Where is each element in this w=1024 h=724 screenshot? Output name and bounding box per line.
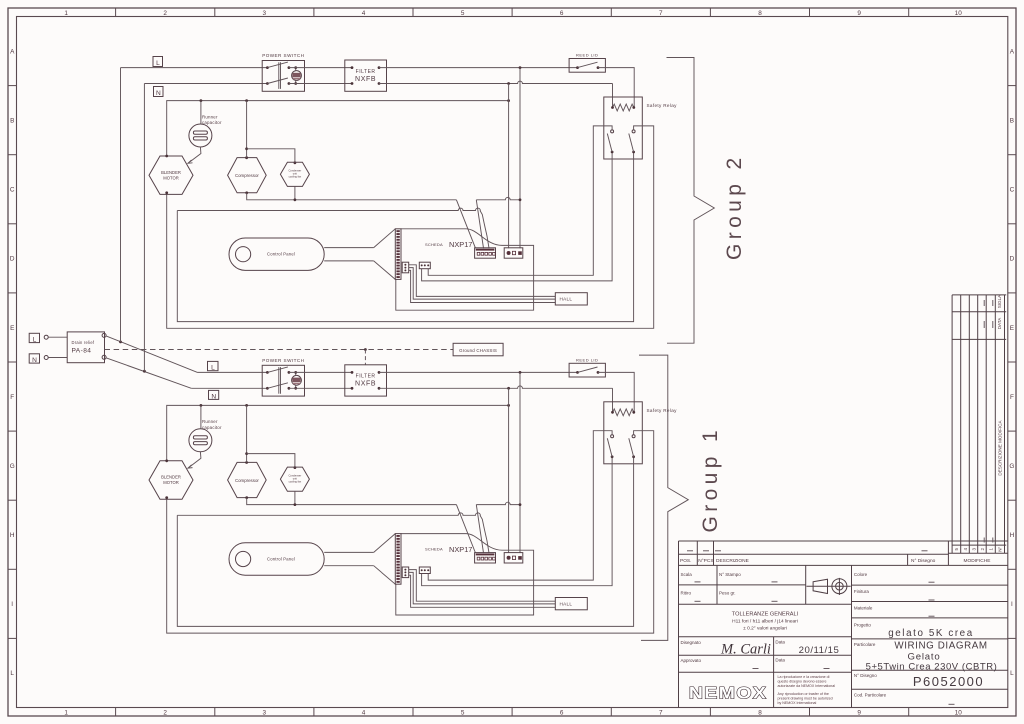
wire relay contact2-top loop to blender motor (group 1) [167, 431, 654, 633]
wire diagonal B to scheda (group 2) [476, 200, 483, 248]
svg-text:I: I [11, 601, 13, 608]
svg-text:10: 10 [955, 709, 963, 716]
svg-text:MOTOR: MOTOR [163, 175, 179, 180]
svg-text:L: L [211, 365, 215, 372]
connector CN3 3-pin (group 1) [504, 553, 523, 563]
revision strip column numbers [954, 294, 1003, 552]
blender motor M1 (group 1) [149, 461, 193, 499]
filter NXFB (group 2) [345, 60, 387, 91]
svg-text:H: H [10, 532, 15, 539]
wire terminal N to strain relief [48, 357, 67, 359]
svg-text:MODIFICHE: MODIFICHE [964, 558, 991, 564]
title block header row texts [680, 558, 990, 564]
connector CN3 3-pin (group 2) [504, 248, 523, 258]
svg-text:NXFB: NXFB [355, 381, 376, 388]
wire filter to reed-lid L (group 1) [379, 371, 578, 373]
svg-text:capacitor: capacitor [202, 425, 222, 430]
svg-text:E: E [10, 325, 14, 332]
svg-text:A: A [10, 48, 15, 55]
node-label box N (group 2) [154, 87, 164, 97]
svg-text:H11 fori / h11 alberi /: H11 fori / h11 alberi / j14 lineari [732, 619, 798, 625]
wire relay contact1-bottom loop to connector K (group 1) [422, 458, 612, 586]
svg-text:C: C [1010, 187, 1015, 194]
wire compressor return right segment (group 2) [476, 197, 520, 199]
wire filter to relay-coil N (group 1) [379, 386, 613, 388]
svg-text:D: D [10, 256, 15, 263]
wire compressor return (group 2) [247, 193, 457, 200]
svg-text:autorizzate da NEMOX Internati: autorizzate da NEMOX International [778, 684, 836, 688]
svg-text:L: L [1010, 670, 1014, 677]
wire L to power switch (group 1) [198, 371, 268, 373]
power switch blades (group 2) [267, 62, 288, 68]
title block field labels [681, 572, 887, 697]
wire capacitor to blender (group 2) [188, 147, 201, 163]
svg-text:E: E [1010, 325, 1014, 332]
pin strip connector (group 2) [395, 229, 401, 280]
svg-text:Group 1: Group 1 [699, 426, 722, 533]
connector K 3-pin (group 2) [419, 262, 430, 269]
svg-text:NXP17: NXP17 [449, 240, 472, 249]
relay contact 2 (group 1) [632, 435, 635, 438]
svg-text:P6052000: P6052000 [913, 674, 984, 689]
svg-text:SCHEDA: SCHEDA [425, 547, 443, 552]
scheda NXP17 board outline (group 2) [396, 229, 534, 310]
wire N bus (group 2) [167, 101, 509, 156]
node-label box L (group 2) [153, 57, 163, 67]
svg-text:10: 10 [955, 10, 963, 17]
svg-text:Any riproduction or trasfer of: Any riproduction or trasfer of the [778, 692, 829, 696]
svg-text:5+5Twin Crea 230V (CBTR): 5+5Twin Crea 230V (CBTR) [866, 661, 998, 672]
svg-text:D: D [1010, 256, 1015, 263]
copyright note [778, 675, 836, 705]
junction N tap (group 2) [507, 82, 510, 85]
node-label box L (group 1) [208, 361, 219, 370]
wire L to power switch (group 2) [121, 67, 268, 69]
wire reed to relay coil (group 1) [598, 372, 634, 411]
wire diagonal A to scheda (group 1) [456, 505, 475, 553]
svg-text:8: 8 [758, 10, 762, 17]
svg-text:Cod. Particolare: Cod. Particolare [854, 692, 887, 697]
HALL sensor (group 2) [555, 293, 587, 305]
title block placeholder dashes [687, 551, 955, 705]
control panel cable neck (group 1) [324, 551, 374, 553]
relay contact 1 (group 2) [611, 130, 614, 133]
tolleranze generali note [732, 611, 799, 631]
svg-text:7: 7 [659, 709, 663, 716]
wire bus to capacitor (group 2) [200, 101, 202, 124]
svg-text:1: 1 [989, 547, 994, 550]
wire bus to compressor (group 1) [246, 405, 248, 462]
connector J 3-pin (group 2) [402, 262, 409, 273]
svg-text:SIGLA: SIGLA [997, 294, 1002, 308]
svg-text:5: 5 [954, 547, 959, 550]
wire compressor return (group 1) [247, 498, 457, 505]
cable funnel (group 1) [374, 534, 396, 553]
svg-text:G: G [1009, 463, 1014, 470]
svg-text:6: 6 [560, 10, 564, 17]
wire branch to fan (group 2) [247, 149, 295, 163]
svg-text:Ritiro: Ritiro [681, 591, 692, 596]
terminal label N [29, 354, 39, 363]
svg-text:H: H [1010, 532, 1015, 539]
junction ground tap [364, 348, 367, 351]
svg-text:N°PCS: N°PCS [698, 558, 713, 564]
relay coil (group 1) [613, 409, 634, 416]
junction L tap (group 1) [519, 371, 522, 374]
filter NXFB (group 1) [345, 365, 387, 396]
wire N drop to connector (group 2) [508, 84, 510, 249]
terminal label L [29, 333, 39, 342]
svg-text:Ground CHASSIS: Ground CHASSIS [459, 348, 497, 353]
svg-text:MOTOR: MOTOR [163, 480, 179, 485]
wire diagonal A to scheda (group 2) [456, 200, 475, 248]
control panel cable neck (group 2) [324, 247, 374, 249]
wire filter to relay-coil N (group 2) [379, 81, 613, 83]
power switch mechanical link (group 2) [278, 62, 280, 89]
svg-text:8: 8 [758, 709, 762, 716]
svg-text:3: 3 [263, 709, 267, 716]
connector CN5 5-pin (group 2) [475, 248, 496, 258]
condenser cooling fan M3 (group 2) [280, 162, 309, 186]
svg-text:L: L [156, 60, 160, 67]
svg-text:N° Stampo: N° Stampo [719, 572, 741, 577]
first angle projection symbol [813, 579, 827, 593]
svg-text:I: I [1011, 601, 1013, 608]
power switch mechanical link (group 1) [278, 367, 280, 394]
svg-text:HALL: HALL [560, 602, 573, 607]
wire filter to reed-lid L (group 2) [379, 67, 578, 69]
svg-text:6: 6 [560, 709, 564, 716]
wire compressor return right segment (group 1) [476, 502, 520, 504]
svg-text:C: C [10, 187, 15, 194]
power switch S1 (group 2) [262, 61, 304, 92]
svg-text:Runner: Runner [202, 419, 218, 424]
svg-text:cooling fan: cooling fan [289, 175, 302, 179]
wire relay contact1-top loop to connector K (group 2) [428, 126, 612, 275]
node-label box N (group 1) [209, 390, 219, 399]
title block values [799, 628, 998, 689]
svg-text:Drain relief: Drain relief [72, 340, 95, 345]
svg-text:REED LID: REED LID [576, 357, 598, 362]
connector J 3-pin (group 1) [402, 567, 409, 578]
group bracket (group 2) [667, 58, 715, 344]
svg-text:BLENDER: BLENDER [161, 475, 181, 480]
wire relay contact2-top loop to blender motor (group 2) [167, 126, 654, 328]
power switch lamp (group 2) [292, 71, 302, 81]
scheda NXP17 board outline (group 1) [396, 534, 534, 615]
svg-text:by NEMOX International: by NEMOX International [778, 701, 817, 705]
svg-text:present drawing must be autori: present drawing must be autorized [778, 696, 833, 700]
junction L tap (group 2) [519, 66, 522, 69]
svg-text:3: 3 [971, 547, 976, 550]
svg-text:4: 4 [362, 709, 366, 716]
svg-text:2: 2 [163, 709, 167, 716]
group bracket (group 1) [639, 355, 688, 640]
wire capacitor to blender (group 1) [188, 452, 201, 468]
safety relay K1 (group 2) [604, 97, 643, 159]
wire fan return (group 2) [294, 186, 296, 199]
svg-text:A: A [1010, 48, 1015, 55]
title block outline [679, 541, 1008, 708]
svg-text:TOLLERANZE GENERALI: TOLLERANZE GENERALI [732, 611, 799, 617]
wire terminal L to strain relief [48, 336, 67, 338]
svg-text:9: 9 [857, 10, 861, 17]
svg-text:Compressor: Compressor [235, 173, 259, 178]
svg-text:POWER SWITCH: POWER SWITCH [262, 358, 304, 363]
svg-text:Finitura: Finitura [854, 589, 870, 594]
control panel (group 2) [229, 238, 324, 270]
svg-text:F: F [10, 394, 14, 401]
safety relay K1 (group 1) [604, 402, 643, 464]
svg-text:1: 1 [64, 10, 68, 17]
svg-text:Colore: Colore [854, 572, 868, 577]
revision strip table [948, 295, 1007, 553]
compressor M2 (group 1) [228, 462, 267, 497]
junction N tap (group 1) [507, 387, 510, 390]
wire diagonal B to scheda (group 1) [476, 505, 483, 553]
wire J pin1 to HALL (group 2) [409, 265, 556, 297]
wire switch to filter L (group 2) [289, 67, 352, 69]
svg-text:Scala: Scala [681, 572, 693, 577]
svg-text:DESCRIZIONE MODIFICA: DESCRIZIONE MODIFICA [998, 420, 1003, 476]
svg-text:gelato 5K crea: gelato 5K crea [888, 628, 974, 639]
wire relay contact2-bottom loop to scheda connector (group 2) [177, 153, 633, 322]
svg-text:Safety Relay: Safety Relay [647, 103, 678, 108]
svg-text:4: 4 [362, 10, 366, 17]
svg-text:Compressor: Compressor [235, 478, 259, 483]
power switch contacts (group 2) [266, 66, 269, 69]
wire N to power switch (group 2) [144, 83, 267, 85]
svg-text:BLENDER: BLENDER [161, 170, 181, 175]
svg-text:Peso gr.: Peso gr. [719, 591, 736, 596]
svg-text:2: 2 [980, 547, 985, 550]
svg-text:SCHEDA: SCHEDA [425, 242, 443, 247]
wire mains L diagonal to group 1 [106, 336, 198, 373]
blender motor M1 (group 2) [149, 156, 193, 194]
svg-text:questo disegno devono essere: questo disegno devono essere [778, 680, 827, 684]
svg-text:Group 2: Group 2 [723, 153, 746, 260]
wire J pin2 to HALL (group 1) [409, 572, 556, 604]
wire J pin2 to HALL (group 2) [409, 268, 556, 300]
svg-text:1: 1 [64, 709, 68, 716]
svg-text:FILTER: FILTER [356, 69, 376, 75]
svg-text:L: L [10, 670, 14, 677]
wire L drop to connector (group 1) [519, 372, 521, 553]
svg-text:3: 3 [263, 10, 267, 17]
terminal N [44, 356, 48, 360]
cable funnel (group 2) [374, 229, 396, 248]
wire J pin1 to HALL (group 1) [409, 570, 556, 602]
wire branch to fan (group 1) [247, 454, 295, 468]
svg-text:20/11/15: 20/11/15 [799, 645, 840, 656]
wire fan return (group 1) [294, 491, 296, 504]
terminal L [44, 335, 48, 339]
svg-text:Safety Relay: Safety Relay [647, 408, 678, 413]
wire bus to capacitor (group 1) [200, 405, 202, 428]
control panel (group 1) [229, 543, 324, 575]
wire switch to filter N (group 2) [289, 83, 352, 85]
svg-text:9: 9 [857, 709, 861, 716]
wire N bus (group 1) [167, 405, 509, 460]
svg-text:N° Disegno: N° Disegno [854, 673, 877, 678]
svg-text:N°: N° [998, 546, 1003, 551]
svg-text:La riproduzione e la creazione: La riproduzione e la creazione di [778, 675, 830, 679]
svg-text:DESCRIZIONE: DESCRIZIONE [716, 558, 749, 564]
strain relief PA-84 [67, 332, 104, 363]
svg-text:4: 4 [963, 547, 968, 550]
svg-text:POS.: POS. [680, 558, 691, 564]
power switch S1 (group 1) [262, 365, 304, 396]
relay contact 2 (group 2) [632, 130, 635, 133]
power switch lamp (group 1) [292, 375, 302, 385]
junction mains L tap for group 2 [119, 341, 122, 344]
wire mains L riser to group 2 [120, 68, 122, 342]
strain relief output terminals [102, 333, 106, 337]
HALL sensor (group 1) [555, 598, 587, 610]
svg-text:Disegnato: Disegnato [681, 640, 702, 645]
svg-text:Materiale: Materiale [854, 606, 873, 611]
relay contact 1 (group 1) [611, 435, 614, 438]
svg-text:N: N [156, 90, 161, 97]
wire L drop to connector (group 2) [519, 68, 521, 249]
runner capacitor C1 (group 1) [189, 429, 212, 452]
svg-text:5: 5 [461, 10, 465, 17]
pin strip connector (group 1) [395, 534, 401, 585]
svg-text:Approvato: Approvato [681, 658, 702, 663]
wire relay contact1-bottom loop to connector K (group 2) [422, 153, 612, 281]
svg-text:Control Panel: Control Panel [267, 252, 295, 257]
svg-text:Runner: Runner [202, 114, 218, 119]
revision strip placeholder ticks [984, 300, 993, 543]
svg-text:N: N [211, 393, 216, 400]
svg-text:N° Disegno: N° Disegno [911, 558, 936, 564]
svg-text:POWER SWITCH: POWER SWITCH [262, 53, 304, 58]
wire N to power switch (group 1) [191, 387, 267, 389]
svg-text:HALL: HALL [560, 297, 573, 302]
reed lid switch (group 1) [569, 363, 605, 377]
svg-text:M. Carli: M. Carli [720, 642, 771, 658]
svg-text:capacitor: capacitor [202, 120, 222, 125]
wire switch to filter N (group 1) [289, 387, 352, 389]
wire reed to relay coil (group 2) [598, 68, 634, 107]
svg-text:N: N [32, 357, 37, 364]
svg-text:NEMOX: NEMOX [689, 684, 767, 702]
svg-text:B: B [1010, 117, 1014, 124]
power switch contacts (group 1) [266, 371, 269, 374]
junction mains N tap for group 2 [143, 370, 146, 373]
wire J pin3 to HALL (group 1) [409, 575, 556, 607]
connector CN5 5-pin (group 1) [475, 553, 496, 563]
runner capacitor C1 (group 2) [189, 124, 212, 147]
wire bus to compressor (group 2) [246, 101, 248, 158]
svg-text:NXP17: NXP17 [449, 545, 472, 554]
reed lid switch (group 2) [569, 59, 605, 73]
svg-text:2: 2 [163, 10, 167, 17]
svg-text:B: B [10, 117, 14, 124]
ground stub to filter group 1 [364, 350, 366, 365]
power switch blades (group 1) [267, 367, 288, 373]
svg-text:Data: Data [775, 640, 785, 645]
ground chassis dashed wire [105, 349, 454, 351]
condenser cooling fan M3 (group 1) [280, 467, 309, 491]
svg-text:WIRING DIAGRAM: WIRING DIAGRAM [894, 641, 987, 652]
svg-text:REED LID: REED LID [576, 53, 598, 58]
wire J pin3 to HALL (group 2) [409, 270, 556, 302]
wire mains N riser to group 2 [143, 84, 145, 372]
svg-text:DATA: DATA [997, 317, 1002, 330]
svg-text:L: L [33, 336, 37, 343]
svg-text:F: F [1010, 394, 1014, 401]
svg-text:Control Panel: Control Panel [267, 557, 295, 562]
wire relay contact1-top loop to connector K (group 1) [428, 431, 612, 580]
wire relay contact2-bottom loop to scheda connector (group 1) [177, 458, 633, 627]
wire switch to filter L (group 1) [289, 371, 352, 373]
relay coil (group 2) [613, 104, 634, 111]
svg-text:Progetto: Progetto [854, 623, 872, 628]
compressor M2 (group 2) [228, 158, 267, 193]
wire mains N diagonal to group 1 [106, 358, 191, 389]
connector K 3-pin (group 1) [419, 567, 430, 574]
wire N drop to connector (group 1) [508, 388, 510, 553]
svg-text:PA-84: PA-84 [72, 347, 92, 354]
svg-text:NXFB: NXFB [355, 76, 376, 83]
svg-text:7: 7 [659, 10, 663, 17]
svg-text:Data: Data [775, 657, 785, 662]
svg-text:± 0.2° valori angolari: ± 0.2° valori angolari [743, 625, 787, 631]
svg-text:cooling fan: cooling fan [289, 479, 302, 483]
svg-text:5: 5 [461, 709, 465, 716]
svg-text:Particolare: Particolare [854, 642, 876, 647]
ground chassis label box [453, 343, 503, 356]
svg-text:G: G [10, 463, 15, 470]
svg-text:FILTER: FILTER [356, 374, 376, 380]
